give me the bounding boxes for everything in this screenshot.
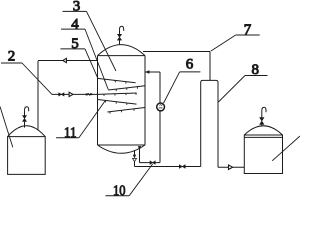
tank T9 body (right product tank) xyxy=(244,135,282,174)
tank T9 vent hook xyxy=(262,107,266,112)
tank T9 vent valve xyxy=(260,118,264,125)
label 6 underline xyxy=(180,71,201,73)
leader line 5 xyxy=(85,49,98,78)
tray 4 (right attached) xyxy=(107,108,145,113)
arrow at column bottom outlet xyxy=(138,146,141,149)
valve on suction line (pointed by 10) xyxy=(150,161,155,164)
wire: drain drop from column bottom xyxy=(134,151,136,155)
arrow on pipe B (right) xyxy=(69,92,73,96)
tank T9 dome xyxy=(244,126,282,135)
vessel V8 (thin column) xyxy=(201,80,218,167)
column vent valve xyxy=(118,34,122,40)
tank T1 body (left storage tank) xyxy=(8,137,46,175)
tray 3 ticks xyxy=(106,101,127,105)
column C3 bottom chord xyxy=(98,144,146,146)
tank T1 vent stub xyxy=(24,110,26,127)
valve on drain line xyxy=(179,165,185,168)
leader line label 9 (cut off) xyxy=(272,136,300,161)
pump inner detail xyxy=(159,104,163,108)
wire: recirculation return into column xyxy=(145,71,160,73)
svg-text:4: 4 xyxy=(71,17,79,33)
tray 1 (left attached) xyxy=(98,78,136,82)
leader line label 1 (cut off) xyxy=(0,107,13,148)
tank T9 vent stub xyxy=(261,111,263,126)
tank T1 vent valve xyxy=(23,116,27,122)
label 2 underline xyxy=(1,62,22,64)
wire: vessel V8 outlet to tank T9 xyxy=(218,166,244,168)
pump P6 xyxy=(157,103,165,111)
label 4 underline xyxy=(61,28,85,30)
column C3 bottom dome xyxy=(98,145,146,153)
leader line 10 xyxy=(129,164,152,196)
tray 1 ticks xyxy=(105,79,126,83)
leader line 4 xyxy=(85,29,108,90)
svg-text:2: 2 xyxy=(8,48,16,64)
squiggle fitting on pipe B xyxy=(87,93,91,95)
column C3 left wall xyxy=(97,56,99,145)
column C3 right wall xyxy=(144,56,146,145)
wire: suction horizontal from column bottom xyxy=(140,162,161,164)
label 5 underline xyxy=(60,48,85,50)
wire: line A column to tank T1 xyxy=(38,60,98,62)
svg-text:3: 3 xyxy=(73,0,81,15)
wire: pipe from line A down into tank T1 xyxy=(37,61,39,130)
column vent hook xyxy=(120,26,124,31)
tank T1 vent hook xyxy=(25,107,29,112)
wire: drain drop lower xyxy=(134,162,136,167)
distributor ticks xyxy=(104,93,136,96)
leader line 2 xyxy=(22,63,52,94)
tray 3 (left attached) xyxy=(98,100,137,105)
tray 2 (right attached) xyxy=(108,86,145,90)
column C3 top chord xyxy=(98,55,146,57)
distributor pipe inside column xyxy=(98,93,137,94)
tank T9 chord second line xyxy=(244,136,282,138)
arrow into column wall xyxy=(145,71,149,74)
wire: drain horizontal to vessel V8 xyxy=(135,166,201,168)
valve on pipe B xyxy=(59,93,64,96)
wire: riser from pump to return xyxy=(159,72,161,103)
svg-text:11: 11 xyxy=(64,125,77,141)
svg-text:6: 6 xyxy=(186,57,194,73)
arrow on outlet xyxy=(229,165,233,169)
wire: feed pipe B into column xyxy=(52,93,98,95)
svg-text:5: 5 xyxy=(71,36,79,52)
label 7 underline xyxy=(236,34,260,36)
label 11 underline xyxy=(56,137,79,139)
leader line 8 xyxy=(218,76,245,103)
tank T1 dome xyxy=(8,126,46,137)
wire: pump suction drop xyxy=(159,111,161,163)
tray 2 ticks xyxy=(116,87,137,91)
leader line 3 xyxy=(87,11,117,71)
svg-text:10: 10 xyxy=(113,183,126,199)
tray 4 ticks xyxy=(110,109,134,114)
leader line 6 xyxy=(164,72,180,103)
label 10 underline xyxy=(105,195,129,197)
arrow on line A (left) xyxy=(63,58,67,62)
drain funnel xyxy=(133,158,137,161)
label 3 underline xyxy=(63,10,87,12)
drain arrow xyxy=(133,155,136,158)
wire: vapor line from column top xyxy=(143,51,210,53)
leader line 11 xyxy=(79,101,105,138)
column vent stub xyxy=(119,29,121,44)
wire: suction riser from column bottom xyxy=(139,148,141,163)
label 8 underline xyxy=(245,75,268,77)
wire: vapor line drop xyxy=(209,52,211,81)
leader line 7 xyxy=(211,35,236,51)
column C3 top dome xyxy=(98,45,146,56)
